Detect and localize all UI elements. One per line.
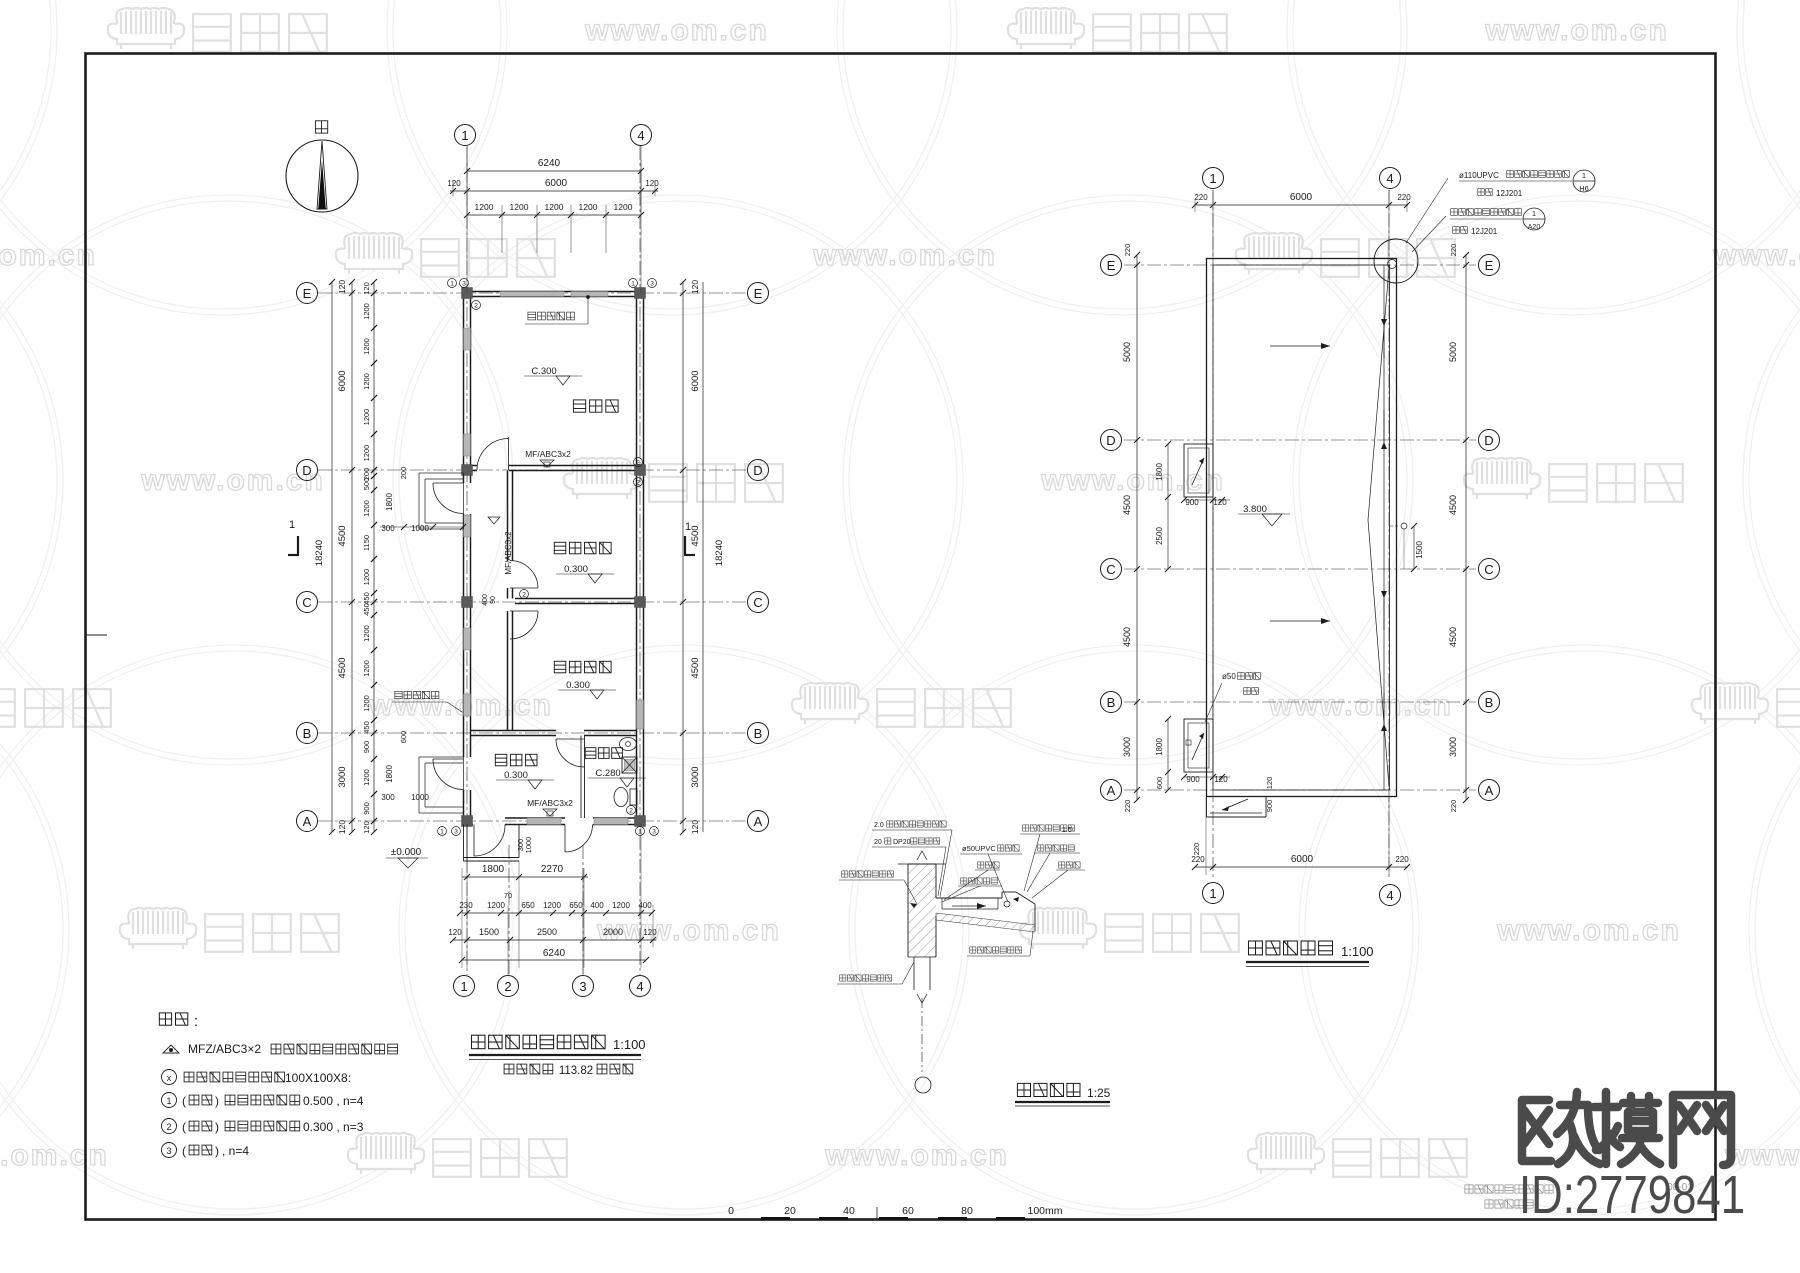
svg-text:3000: 3000 [1122,737,1132,757]
roof axis dims right [1465,255,1467,800]
svg-text:220: 220 [1397,193,1411,202]
svg-text:0.300: 0.300 [504,770,528,781]
svg-text:60: 60 [902,1205,914,1217]
roof title [1249,941,1263,955]
svg-text:1200: 1200 [612,901,630,910]
roof top dims [1195,204,1408,206]
svg-text:4500: 4500 [1448,495,1458,515]
svg-text:1150: 1150 [362,535,371,551]
svg-text:113.82: 113.82 [559,1065,593,1077]
svg-text:20: 20 [784,1205,796,1217]
svg-text:6240: 6240 [543,948,566,959]
svg-text:650: 650 [521,901,535,910]
titleblock faint text [1465,1185,1473,1193]
svg-text:220: 220 [1449,800,1458,813]
svg-text:220: 220 [1191,855,1205,864]
svg-text:1: 1 [440,829,444,836]
svg-text:120: 120 [362,821,371,834]
toilet fixtures [620,738,637,751]
svg-text:220: 220 [1194,193,1208,202]
svg-text:120: 120 [337,820,347,834]
svg-text:120: 120 [645,179,659,188]
svg-text:3000: 3000 [690,766,701,787]
roof grid [1124,264,1476,266]
svg-text:A: A [1107,783,1116,798]
svg-text:12J201: 12J201 [1471,227,1498,236]
toilet partition x583 [580,736,582,819]
svg-text:1:25: 1:25 [1087,1086,1111,1100]
svg-text:3: 3 [166,1146,171,1156]
svg-text:1200: 1200 [614,202,633,212]
svg-text:B: B [1107,695,1116,710]
svg-text:x: x [167,1073,172,1083]
svg-text:1200: 1200 [362,625,371,642]
svg-text:450: 450 [362,603,371,616]
scupper box 2 [1184,719,1213,772]
svg-text:0.300: 0.300 [566,680,590,691]
svg-text:1200: 1200 [362,695,371,712]
svg-text:4: 4 [636,979,643,994]
svg-text:C: C [302,595,311,610]
svg-text:0.500 , n=4: 0.500 , n=4 [303,1094,364,1108]
svg-text:4500: 4500 [690,657,701,678]
svg-text:B: B [1485,695,1494,710]
svg-text:220: 220 [1123,800,1132,813]
windows on north wall [500,292,564,297]
svg-text:ø50: ø50 [1222,672,1236,681]
svg-text:MFZ/ABC3×2: MFZ/ABC3×2 [188,1042,261,1056]
svg-text:2: 2 [636,480,640,487]
svg-text:1200: 1200 [362,445,371,462]
svg-text:120: 120 [1214,775,1228,784]
svg-text:400: 400 [590,901,604,910]
west wall [463,297,465,483]
svg-text::: : [194,1013,198,1030]
svg-text:E: E [1485,258,1494,273]
svg-text:1: 1 [1209,886,1216,901]
svg-text:1000: 1000 [524,837,533,854]
scupper box 1 [1184,444,1213,497]
svg-text:1: 1 [166,1096,171,1106]
svg-text:100mm: 100mm [1027,1205,1062,1217]
svg-text:1200: 1200 [362,303,371,320]
detail title [1017,1083,1030,1096]
svg-text:2: 2 [504,979,511,994]
svg-text:220: 220 [1395,855,1409,864]
1500 dim + outlet [1413,526,1415,569]
svg-text:C: C [1484,562,1493,577]
roof canopy below A [1206,797,1208,818]
svg-text:4: 4 [1386,888,1393,903]
svg-text:1:100: 1:100 [613,1037,646,1052]
svg-text:0: 0 [728,1205,734,1217]
svg-text:80: 80 [961,1205,973,1217]
svg-text:1500: 1500 [479,927,499,937]
bottom dimensions [462,876,588,878]
right dimension column [682,282,684,832]
svg-text:120: 120 [362,282,371,295]
svg-text:18240: 18240 [314,540,325,566]
fire window labels [528,312,536,320]
svg-text:±0.000: ±0.000 [391,847,422,858]
svg-text:1: 1 [1582,171,1586,180]
svg-text:2270: 2270 [541,864,564,875]
interior wall D [471,465,478,467]
roof bottom dims [1195,866,1408,868]
svg-text:B: B [754,726,763,741]
svg-text:900: 900 [1186,775,1200,784]
svg-text:1200: 1200 [362,569,371,586]
svg-text:(: ( [182,1120,186,1134]
left dimension column [351,282,353,832]
svg-text:D: D [1106,433,1115,448]
svg-text:18240: 18240 [714,540,725,566]
svg-text:900: 900 [1185,498,1199,507]
svg-text:6240: 6240 [538,158,561,169]
svg-text:4500: 4500 [1122,627,1132,647]
svg-text:5000: 5000 [1122,342,1132,362]
svg-text:): ) [215,1120,219,1134]
svg-text:3.800: 3.800 [1243,504,1267,515]
interior wall C [515,598,637,600]
svg-text:2.0: 2.0 [874,822,884,829]
svg-text:2500: 2500 [537,927,557,937]
svg-text:120: 120 [1265,777,1274,790]
svg-text:4500: 4500 [337,525,348,546]
svg-text:120: 120 [643,928,657,937]
svg-text:400: 400 [482,594,489,606]
svg-text:1800: 1800 [1155,738,1164,756]
svg-text:90: 90 [490,596,497,604]
svg-text:6000: 6000 [1291,854,1314,865]
svg-text:4: 4 [1386,171,1393,186]
canopy slab profile [936,897,1002,899]
svg-text:1: 1 [685,521,691,533]
svg-text:900: 900 [362,802,371,815]
svg-text:300: 300 [381,524,395,533]
detail callout circle at E/4 [1374,239,1418,283]
svg-text:A: A [1485,783,1494,798]
svg-text:2000: 2000 [603,927,623,937]
entrance canopy/steps [463,825,465,862]
partition x509 corridor [507,471,509,562]
svg-text:1200: 1200 [545,202,564,212]
svg-text:1500: 1500 [1415,541,1424,559]
legend [159,1013,397,1158]
svg-text:ø110UPVC: ø110UPVC [1459,171,1499,180]
svg-text:200: 200 [399,467,408,480]
svg-text:E: E [303,286,312,301]
svg-text:600: 600 [399,731,408,744]
svg-text:4500: 4500 [337,657,348,678]
svg-text:6000: 6000 [545,178,568,189]
svg-text:3: 3 [650,281,654,288]
svg-text:C.300: C.300 [531,366,556,377]
north arrow [286,121,358,212]
svg-text:1.5: 1.5 [1062,827,1072,834]
small numbered bubbles [448,279,457,288]
svg-text:): ) [215,1094,219,1108]
svg-text:1200: 1200 [362,409,371,426]
svg-text:1:100: 1:100 [1341,944,1374,959]
svg-text:300: 300 [381,793,395,802]
svg-text:1: 1 [461,128,468,143]
svg-text:(: ( [182,1144,186,1158]
svg-text:0.300: 0.300 [564,564,588,575]
south wall A [464,817,474,819]
svg-text:2: 2 [636,460,640,467]
roof outline (parapet) [1207,259,1397,797]
svg-text:120: 120 [448,928,462,937]
svg-text:): ) [215,1144,219,1158]
svg-text:1: 1 [460,979,467,994]
svg-text:1: 1 [1209,171,1216,186]
svg-text:2: 2 [629,808,633,815]
svg-text:ø50UPVC: ø50UPVC [962,844,996,853]
svg-text:A20: A20 [1528,224,1541,231]
big omw logo [1522,1092,1731,1165]
svg-text:1200: 1200 [362,769,371,786]
roof dims left [1167,444,1169,497]
svg-text:1800: 1800 [482,864,505,875]
svg-text:1200: 1200 [362,373,371,390]
svg-text:120: 120 [337,280,347,294]
svg-text:3000: 3000 [337,766,348,787]
svg-text:3000: 3000 [1448,737,1458,757]
interior wall B [471,730,557,732]
svg-text:3: 3 [462,281,466,288]
svg-text:(: ( [182,1094,186,1108]
svg-text:2: 2 [166,1122,171,1132]
svg-text:650: 650 [569,901,583,910]
svg-text:C.280: C.280 [595,768,620,779]
svg-text:B: B [303,726,312,741]
svg-text:2: 2 [474,303,478,310]
svg-text:MF/ABC3x2: MF/ABC3x2 [525,449,571,459]
svg-text:1000: 1000 [411,524,429,533]
wall below slab [913,957,915,990]
svg-text:220: 220 [1449,244,1458,257]
svg-text:5000: 5000 [1448,342,1458,362]
svg-text:120: 120 [447,179,461,188]
doors [508,437,510,470]
left plan grid lines [318,292,748,294]
svg-text:1200: 1200 [362,500,371,517]
wall top break arrow [917,851,927,860]
svg-text:20: 20 [874,839,882,846]
svg-text:220: 220 [1123,244,1132,257]
svg-text:70: 70 [504,891,512,900]
svg-text:100X100X8:: 100X100X8: [285,1071,351,1085]
svg-text:, n=4: , n=4 [222,1144,249,1158]
left plan title [469,1035,646,1077]
svg-text:E: E [754,286,763,301]
svg-text:A: A [754,814,763,829]
svg-text:400: 400 [638,901,652,910]
svg-text:1200: 1200 [362,660,371,677]
svg-text:1: 1 [631,281,635,288]
svg-text:1800: 1800 [385,765,394,783]
svg-text:500: 500 [362,478,371,491]
top dimension lines [467,170,641,172]
svg-text:1200: 1200 [510,202,529,212]
svg-text:MF/ABC3x2: MF/ABC3x2 [527,798,573,808]
svg-text:1: 1 [289,519,295,531]
svg-text:ID:2779841: ID:2779841 [1519,1165,1745,1225]
svg-text:450: 450 [362,592,371,605]
roof gutter line + slope [1383,265,1385,790]
svg-text:230: 230 [459,901,473,910]
svg-text:1000: 1000 [411,793,429,802]
column squares [462,288,473,299]
svg-text:H6: H6 [1579,184,1589,193]
svg-text:12J201: 12J201 [1496,189,1523,198]
svg-text:1200: 1200 [579,202,598,212]
east wall [636,297,638,818]
svg-text:D: D [753,463,762,478]
svg-text:120: 120 [690,280,700,294]
svg-text:1800: 1800 [385,493,394,511]
svg-text:0.300 , n=3: 0.300 , n=3 [303,1120,364,1134]
border frame [86,634,107,636]
svg-text:DP20: DP20 [893,839,911,846]
svg-text:220: 220 [1192,843,1201,856]
svg-text:1200: 1200 [475,202,494,212]
svg-text:3: 3 [579,979,586,994]
svg-text:120: 120 [690,820,700,834]
svg-text:1: 1 [1532,209,1536,218]
svg-text:1: 1 [450,281,454,288]
room labels (fake CJK) [573,400,585,412]
svg-text:4: 4 [637,128,644,143]
svg-text:C: C [1106,562,1115,577]
windows on west wall [464,328,471,350]
roof axis dims far left [1136,255,1138,800]
svg-text:900: 900 [362,741,371,754]
svg-text:3: 3 [652,829,656,836]
svg-text:6000: 6000 [1290,192,1313,203]
svg-text:2: 2 [522,592,526,599]
svg-text:3: 3 [454,829,458,836]
svg-text:450: 450 [362,721,371,734]
svg-text:E: E [1107,258,1116,273]
axis circles left plan [297,283,318,304]
left inner 1200 dims [371,279,377,285]
svg-text:4500: 4500 [1448,627,1458,647]
svg-text:1: 1 [638,829,642,836]
svg-text:6000: 6000 [337,370,348,391]
svg-text:1200: 1200 [543,901,561,910]
svg-text:40: 40 [843,1205,855,1217]
svg-text:C: C [753,595,762,610]
svg-text:1200: 1200 [487,901,505,910]
svg-text:1200: 1200 [362,338,371,355]
svg-text:2500: 2500 [1155,527,1164,545]
svg-text:MF/ABC3x2: MF/ABC3x2 [504,531,513,575]
svg-text:6000: 6000 [690,370,701,391]
scale bar [761,1217,790,1220]
svg-text:4500: 4500 [1122,495,1132,515]
svg-text:600: 600 [1155,777,1164,790]
svg-text:A: A [303,814,312,829]
svg-text:D: D [302,463,311,478]
svg-text:4500: 4500 [690,525,701,546]
exterior wall E (north) [464,291,644,293]
svg-text:900: 900 [1265,800,1274,813]
svg-text:1800: 1800 [1155,463,1164,481]
svg-text:D: D [1484,433,1493,448]
